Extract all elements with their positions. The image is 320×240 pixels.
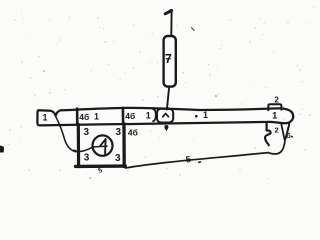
svg-text:2: 2 (274, 95, 279, 104)
svg-text:1: 1 (272, 110, 278, 121)
svg-text:2: 2 (275, 125, 279, 134)
svg-text:3: 3 (116, 127, 122, 138)
svg-text:3: 3 (84, 153, 90, 164)
svg-text:1: 1 (203, 110, 208, 120)
svg-text:1: 1 (146, 111, 151, 121)
svg-text:4б: 4б (125, 111, 135, 121)
svg-text:1: 1 (94, 112, 99, 122)
svg-text:1: 1 (42, 112, 47, 122)
svg-text:3: 3 (84, 127, 90, 138)
svg-text:4б: 4б (128, 127, 138, 137)
svg-text:3: 3 (115, 153, 121, 164)
svg-text:б: б (286, 132, 291, 140)
svg-text:4б: 4б (79, 112, 89, 122)
